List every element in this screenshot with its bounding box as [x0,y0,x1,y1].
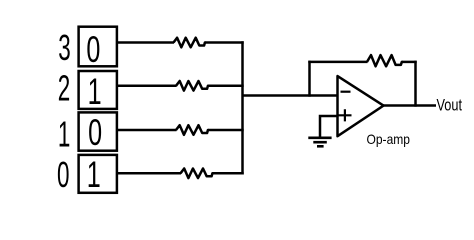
wire feedback tap up from inverting input [308,61,311,97]
svg-text:1: 1 [58,115,70,155]
bit 2 box (register cell) [79,71,117,109]
wire summing node to op-amp inverting input [243,94,338,97]
resistor R3 (bit1) [176,125,209,135]
wire from resistor R2 to summing bus [209,85,244,88]
svg-text:2: 2 [58,69,70,109]
svg-text:Op-amp: Op-amp [367,131,411,147]
wire feedback top right segment [403,61,417,64]
wire from (bit3) box to resistor [117,41,175,44]
ground symbol [308,138,331,147]
wire non-inverting input to ground [320,116,338,137]
svg-text:1: 1 [88,70,102,112]
wire feedback down to output node [414,61,417,107]
wire from resistor R1 to summing bus [206,41,244,44]
wire from (bit2) box to resistor [117,85,177,88]
resistor R4 (bit0) [181,169,214,179]
svg-text:0: 0 [86,28,100,70]
wire from resistor R3 to summing bus [209,129,244,132]
op-amp inverting input minus sign [341,91,351,93]
svg-text:0: 0 [57,156,69,196]
op-amp U1 triangle [338,76,384,136]
feedback resistor Rf [367,55,403,66]
wire from (bit1) box to resistor [117,129,177,132]
wire op-amp output to Vout [383,104,437,107]
wire feedback top left segment [308,61,367,64]
summing node bus (vertical wire joining R1-R4) [241,41,244,174]
bit 3 box (register cell) [79,27,117,67]
resistor R1 (bit3) [174,38,207,48]
bit 0 box (register cell) [79,155,117,193]
bit 1 box (register cell) [79,112,117,150]
resistor R2 (bit2) [176,81,209,91]
wire from resistor R4 to summing bus [213,172,244,175]
svg-text:3: 3 [58,29,70,69]
svg-text:0: 0 [88,111,102,153]
wire from (bit0) box to resistor [117,172,182,175]
svg-text:Vout: Vout [437,96,463,115]
op-amp non-inverting input plus sign [338,109,351,121]
svg-text:1: 1 [87,153,101,195]
